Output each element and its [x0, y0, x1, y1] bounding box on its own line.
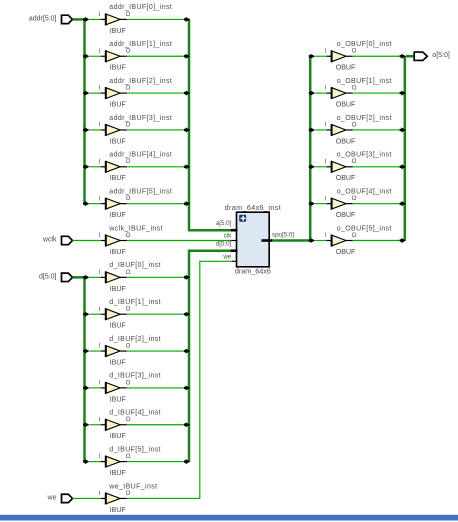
- svg-text:IBUF: IBUF: [110, 322, 127, 330]
- svg-text:O: O: [126, 416, 131, 423]
- svg-text:I: I: [325, 232, 327, 239]
- svg-text:addr_IBUF[3]_inst: addr_IBUF[3]_inst: [109, 115, 172, 122]
- svg-text:O: O: [126, 490, 131, 497]
- svg-text:o_OBUF[4]_inst: o_OBUF[4]_inst: [337, 188, 392, 195]
- svg-text:O: O: [126, 195, 131, 202]
- svg-text:I: I: [99, 158, 101, 165]
- svg-text:o[5:0]: o[5:0]: [432, 52, 450, 59]
- svg-text:we: we: [47, 494, 57, 501]
- svg-text:IBUF: IBUF: [110, 432, 127, 440]
- svg-text:I: I: [99, 85, 101, 92]
- svg-text:I: I: [99, 416, 101, 423]
- svg-text:o_OBUF[2]_inst: o_OBUF[2]_inst: [337, 115, 392, 122]
- svg-text:I: I: [99, 122, 101, 129]
- svg-text:d_IBUF[2]_inst: d_IBUF[2]_inst: [109, 336, 161, 343]
- svg-text:addr_IBUF[0]_inst: addr_IBUF[0]_inst: [109, 4, 172, 11]
- svg-text:O: O: [126, 11, 131, 18]
- svg-text:I: I: [325, 158, 327, 165]
- svg-text:O: O: [126, 121, 131, 128]
- svg-text:I: I: [99, 232, 101, 239]
- svg-text:I: I: [99, 48, 101, 55]
- svg-text:I: I: [325, 48, 327, 55]
- svg-text:OBUF: OBUF: [336, 101, 356, 109]
- svg-text:I: I: [99, 195, 101, 202]
- svg-text:IBUF: IBUF: [110, 469, 127, 477]
- svg-text:d_IBUF[4]_inst: d_IBUF[4]_inst: [109, 410, 161, 417]
- svg-text:addr_IBUF[4]_inst: addr_IBUF[4]_inst: [109, 152, 172, 159]
- svg-text:IBUF: IBUF: [110, 27, 127, 35]
- svg-text:O: O: [126, 232, 131, 239]
- svg-text:we: we: [222, 254, 231, 261]
- svg-text:I: I: [99, 306, 101, 313]
- svg-text:IBUF: IBUF: [110, 358, 127, 366]
- svg-text:addr_IBUF[2]_inst: addr_IBUF[2]_inst: [109, 78, 172, 85]
- svg-text:IBUF: IBUF: [110, 211, 127, 219]
- svg-text:OBUF: OBUF: [336, 174, 356, 182]
- svg-text:IBUF: IBUF: [110, 101, 127, 109]
- svg-text:O: O: [126, 342, 131, 349]
- svg-text:O: O: [352, 121, 357, 128]
- svg-text:O: O: [126, 158, 131, 165]
- svg-text:dram_64x6: dram_64x6: [235, 266, 271, 275]
- svg-text:d[5:0]: d[5:0]: [39, 273, 57, 280]
- svg-text:wclk: wclk: [42, 236, 57, 243]
- svg-text:addr_IBUF[5]_inst: addr_IBUF[5]_inst: [109, 188, 172, 195]
- svg-text:O: O: [126, 85, 131, 92]
- svg-text:O: O: [352, 195, 357, 202]
- svg-text:we_IBUF_inst: we_IBUF_inst: [108, 483, 157, 490]
- svg-text:dram_64x6_inst: dram_64x6_inst: [225, 203, 281, 212]
- svg-text:IBUF: IBUF: [110, 506, 127, 514]
- svg-text:wclk_IBUF_inst: wclk_IBUF_inst: [108, 225, 163, 232]
- svg-text:O: O: [126, 379, 131, 386]
- svg-text:clk: clk: [224, 233, 232, 240]
- svg-text:OBUF: OBUF: [336, 137, 356, 145]
- svg-text:I: I: [99, 269, 101, 276]
- svg-text:O: O: [126, 48, 131, 55]
- svg-text:IBUF: IBUF: [110, 248, 127, 256]
- svg-text:IBUF: IBUF: [110, 64, 127, 72]
- svg-text:addr[5:0]: addr[5:0]: [29, 15, 57, 22]
- svg-text:d_IBUF[5]_inst: d_IBUF[5]_inst: [109, 446, 161, 453]
- svg-text:I: I: [99, 380, 101, 387]
- svg-text:d_IBUF[3]_inst: d_IBUF[3]_inst: [109, 373, 161, 380]
- svg-text:IBUF: IBUF: [110, 174, 127, 182]
- svg-text:I: I: [99, 343, 101, 350]
- svg-text:d_IBUF[0]_inst: d_IBUF[0]_inst: [109, 262, 161, 269]
- svg-text:OBUF: OBUF: [336, 248, 356, 256]
- svg-text:O: O: [126, 269, 131, 276]
- svg-text:I: I: [99, 490, 101, 497]
- svg-text:I: I: [325, 195, 327, 202]
- svg-text:O: O: [352, 232, 357, 239]
- svg-text:d[5:0]: d[5:0]: [216, 241, 232, 248]
- svg-text:addr_IBUF[1]_inst: addr_IBUF[1]_inst: [109, 41, 172, 48]
- svg-text:I: I: [325, 122, 327, 129]
- svg-text:d_IBUF[1]_inst: d_IBUF[1]_inst: [109, 299, 161, 306]
- svg-text:O: O: [352, 85, 357, 92]
- svg-text:OBUF: OBUF: [336, 211, 356, 219]
- svg-text:OBUF: OBUF: [336, 64, 356, 72]
- svg-text:a[5:0]: a[5:0]: [216, 220, 232, 227]
- svg-text:IBUF: IBUF: [110, 395, 127, 403]
- svg-text:o_OBUF[3]_inst: o_OBUF[3]_inst: [337, 152, 392, 159]
- svg-text:O: O: [126, 453, 131, 460]
- svg-text:IBUF: IBUF: [110, 137, 127, 145]
- svg-text:o_OBUF[1]_inst: o_OBUF[1]_inst: [337, 78, 392, 85]
- svg-text:I: I: [325, 85, 327, 92]
- svg-text:O: O: [352, 158, 357, 165]
- svg-text:O: O: [352, 48, 357, 55]
- svg-text:o_OBUF[0]_inst: o_OBUF[0]_inst: [337, 41, 392, 48]
- svg-text:IBUF: IBUF: [110, 285, 127, 293]
- svg-text:I: I: [99, 453, 101, 460]
- svg-text:spo[5:0]: spo[5:0]: [272, 231, 294, 238]
- svg-text:I: I: [99, 11, 101, 18]
- svg-text:o_OBUF[5]_inst: o_OBUF[5]_inst: [337, 225, 392, 232]
- svg-text:O: O: [126, 306, 131, 313]
